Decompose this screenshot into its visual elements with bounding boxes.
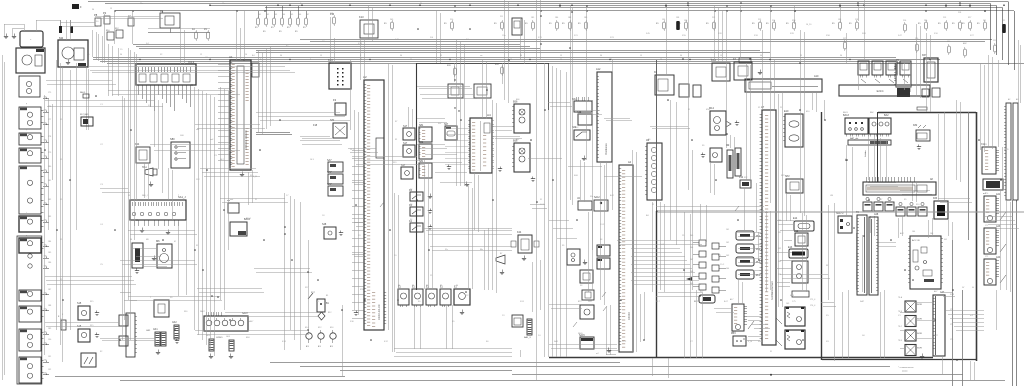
svg-text:149: 149	[786, 303, 789, 305]
svg-text:285: 285	[924, 20, 927, 22]
svg-text:209: 209	[390, 19, 393, 21]
svg-text:185: 185	[531, 17, 534, 19]
svg-text:M14: M14	[706, 109, 710, 111]
svg-text:ABC: ABC	[963, 42, 968, 45]
svg-text:180: 180	[48, 166, 51, 168]
svg-text:E10: E10	[784, 110, 789, 113]
svg-text:31b: 31b	[44, 123, 47, 125]
svg-text:A32: A32	[577, 111, 582, 114]
svg-text:31b: 31b	[44, 97, 47, 99]
svg-text:S15: S15	[77, 302, 82, 305]
svg-text:A12: A12	[596, 68, 601, 71]
svg-text:S07: S07	[444, 123, 449, 126]
svg-text:13: 13	[510, 59, 512, 61]
svg-text:A23: A23	[996, 225, 1001, 228]
svg-text:182: 182	[48, 199, 51, 201]
svg-text:T6: T6	[862, 211, 864, 213]
svg-text:31b: 31b	[44, 220, 47, 222]
svg-text:F12: F12	[744, 177, 747, 179]
svg-text:7: 7	[178, 195, 179, 197]
svg-text:M6: M6	[156, 239, 160, 243]
svg-text:207: 207	[690, 259, 693, 261]
svg-text:R12: R12	[726, 145, 729, 147]
svg-text:SA1_J: SA1_J	[178, 195, 186, 199]
svg-text:sw1: sw1	[196, 129, 199, 131]
svg-text:14_20: 14_20	[806, 24, 811, 26]
svg-text:A17: A17	[730, 298, 733, 301]
svg-text:A21: A21	[996, 193, 1001, 196]
svg-text:30: 30	[92, 9, 94, 11]
svg-text:X2: X2	[160, 54, 162, 56]
svg-text:89: 89	[412, 285, 414, 287]
svg-text:GYRO: GYRO	[216, 337, 223, 339]
svg-text:BA1_3: BA1_3	[524, 336, 531, 339]
svg-text:221: 221	[993, 40, 996, 42]
svg-text:K82: K82	[913, 124, 918, 127]
svg-text:30: 30	[600, 55, 602, 57]
svg-text:30: 30	[400, 55, 402, 57]
svg-text:8: 8	[260, 59, 261, 61]
svg-text:206: 206	[690, 247, 693, 249]
svg-text:E21/4: E21/4	[877, 89, 884, 93]
svg-text:104: 104	[726, 268, 729, 270]
svg-text:101: 101	[726, 229, 729, 231]
svg-text:SA15: SA15	[578, 332, 583, 335]
svg-text:Positionsw: Positionsw	[605, 143, 608, 155]
svg-text:s: s	[26, 162, 27, 164]
svg-text:80: 80	[398, 285, 400, 287]
svg-text:A3: A3	[1016, 98, 1018, 101]
svg-text:E13: E13	[788, 246, 793, 249]
svg-text:16: 16	[660, 59, 662, 61]
svg-text:30: 30	[120, 54, 122, 56]
svg-text:179: 179	[48, 152, 51, 154]
svg-text:S19: S19	[393, 162, 396, 164]
svg-text:31b: 31b	[44, 332, 47, 334]
svg-text:S17: S17	[403, 125, 408, 128]
svg-text:SA07: SA07	[248, 320, 254, 323]
svg-text:31b: 31b	[44, 245, 47, 247]
svg-text:DA11: DA11	[1004, 148, 1009, 151]
svg-text:B7: B7	[500, 253, 502, 255]
svg-text:30: 30	[456, 285, 458, 287]
svg-text:SA1.9: SA1.9	[80, 91, 85, 94]
svg-text:SP2: SP2	[785, 175, 790, 178]
svg-text:F2: F2	[395, 139, 397, 141]
svg-text:SOR: SOR	[917, 333, 922, 335]
svg-text:E10: E10	[806, 111, 809, 113]
svg-text:S15: S15	[90, 301, 93, 303]
svg-text:175: 175	[950, 339, 953, 341]
svg-text:175: 175	[48, 92, 51, 94]
svg-text:31: 31	[196, 245, 198, 247]
svg-text:Lichtin: Lichtin	[864, 150, 867, 157]
svg-text:213: 213	[758, 19, 761, 21]
svg-text:30: 30	[280, 55, 282, 57]
svg-text:183: 183	[48, 216, 51, 218]
svg-text:202: 202	[266, 14, 269, 16]
svg-text:31b: 31b	[44, 266, 47, 268]
svg-text:S81: S81	[419, 124, 424, 127]
svg-text:18: 18	[760, 59, 762, 61]
svg-text:SOR: SOR	[917, 319, 922, 321]
svg-text:K24: K24	[135, 143, 140, 146]
svg-text:10.2: 10.2	[220, 159, 224, 161]
svg-text:S3: S3	[580, 285, 582, 287]
svg-text:A1: A1	[229, 55, 233, 59]
svg-text:400: 400	[947, 41, 950, 43]
svg-text:30f: 30f	[430, 37, 433, 39]
svg-text:188: 188	[568, 17, 571, 19]
svg-text:S15: S15	[90, 325, 93, 327]
svg-text:31b: 31b	[44, 256, 47, 258]
svg-text:36: 36	[130, 239, 132, 241]
svg-text:XXXXXX XXXXX: XXXXXX XXXXX	[244, 130, 248, 150]
svg-text:31c: 31c	[445, 249, 448, 251]
svg-text:152: 152	[778, 248, 781, 250]
svg-text:FL7: FL7	[700, 291, 703, 293]
svg-text:SA1_J: SA1_J	[142, 194, 148, 197]
svg-text:X4.1: X4.1	[188, 60, 195, 64]
svg-text:206: 206	[298, 14, 301, 16]
svg-text:SOR: SOR	[917, 304, 922, 306]
svg-text:K10: K10	[916, 204, 919, 206]
svg-text:31: 31	[845, 159, 847, 161]
svg-text:GK1: GK1	[146, 330, 151, 332]
svg-text:87: 87	[440, 285, 442, 287]
svg-text:205: 205	[290, 14, 293, 16]
svg-text:S07: S07	[438, 123, 441, 125]
svg-text:F27: F27	[968, 17, 971, 19]
svg-text:K3: K3	[410, 204, 412, 206]
svg-text:A7: A7	[761, 105, 765, 109]
svg-text:11: 11	[410, 59, 412, 61]
svg-text:151: 151	[778, 232, 781, 234]
svg-text:10: 10	[360, 59, 362, 61]
svg-text:S17_B09: S17_B09	[80, 114, 89, 116]
svg-text:E16: E16	[330, 327, 333, 329]
svg-text:K7: K7	[880, 199, 882, 201]
svg-text:15: 15	[800, 55, 802, 57]
svg-text:186: 186	[48, 262, 51, 264]
svg-text:190: 190	[48, 339, 51, 341]
svg-text:X_M: X_M	[748, 341, 752, 343]
svg-text:184: 184	[48, 241, 51, 243]
svg-text:SA07: SA07	[200, 310, 205, 313]
svg-text:E84: E84	[246, 337, 249, 339]
svg-text:31: 31	[688, 109, 690, 111]
svg-text:BA2: BA2	[884, 114, 889, 117]
svg-text:221: 221	[983, 20, 986, 22]
svg-text:A4: A4	[487, 113, 491, 117]
svg-text:X1: X1	[758, 107, 760, 109]
svg-text:S62: S62	[575, 127, 578, 129]
svg-text:15: 15	[440, 55, 442, 57]
svg-text:30: 30	[840, 55, 842, 57]
svg-text:172: 172	[985, 256, 988, 258]
svg-text:A9: A9	[648, 138, 650, 141]
svg-text:E66: E66	[516, 99, 519, 101]
svg-text:212: 212	[712, 17, 715, 19]
svg-text:9: 9	[310, 59, 311, 61]
svg-text:31: 31	[540, 199, 542, 201]
svg-text:A24: A24	[996, 256, 1001, 259]
svg-text:SA7: SA7	[327, 183, 332, 186]
svg-text:GK2: GK2	[172, 322, 177, 324]
svg-text:12: 12	[652, 204, 654, 206]
svg-text:171: 171	[985, 225, 988, 227]
svg-text:30: 30	[520, 55, 522, 57]
svg-text:31: 31	[770, 351, 772, 353]
svg-text:189: 189	[584, 17, 587, 19]
svg-text:M14: M14	[709, 107, 714, 110]
svg-text:31b: 31b	[44, 293, 47, 295]
svg-text:31: 31	[255, 199, 257, 201]
svg-text:166: 166	[930, 233, 933, 235]
svg-text:191: 191	[48, 356, 51, 358]
svg-text:15: 15	[110, 8, 112, 10]
svg-text:GK1: GK1	[153, 329, 158, 331]
svg-text:BA13: BA13	[843, 111, 848, 114]
svg-text:K2: K2	[100, 351, 102, 353]
svg-text:K24: K24	[517, 231, 522, 234]
svg-text:SOR: SOR	[917, 348, 922, 350]
svg-text:xxxxx: xxxxx	[902, 371, 908, 373]
svg-text:S5: S5	[562, 245, 564, 247]
svg-text:C5: C5	[87, 54, 89, 56]
svg-text:X11: X11	[984, 144, 987, 146]
svg-text:31b: 31b	[44, 140, 47, 142]
svg-text:B12: B12	[328, 312, 331, 314]
svg-text:15: 15	[640, 55, 642, 57]
svg-text:BA2: BA2	[870, 111, 874, 114]
svg-text:102: 102	[726, 242, 729, 244]
svg-text:31b: 31b	[44, 156, 47, 158]
svg-text:q: q	[26, 129, 27, 131]
svg-text:218: 218	[855, 19, 858, 21]
svg-text:p: p	[26, 103, 27, 105]
svg-text:SA12: SA12	[594, 196, 600, 199]
svg-text:154: 154	[778, 274, 781, 276]
svg-text:15: 15	[720, 55, 722, 57]
svg-text:B3: B3	[575, 99, 577, 101]
svg-text:F28: F28	[792, 20, 795, 22]
svg-text:M2: M2	[59, 36, 63, 40]
svg-text:K7: K7	[395, 121, 397, 123]
svg-text:XXXXX: XXXXX	[628, 312, 631, 320]
svg-text:31b: 31b	[44, 309, 47, 311]
svg-text:181: 181	[48, 180, 51, 182]
svg-text:205: 205	[690, 235, 693, 237]
svg-text:14: 14	[560, 59, 562, 61]
svg-text:P2: P2	[103, 11, 107, 15]
svg-text:14.3: 14.3	[310, 159, 314, 161]
svg-text:T8.C: T8.C	[898, 326, 903, 328]
svg-text:BA13: BA13	[843, 114, 850, 117]
svg-text:13: 13	[128, 195, 130, 197]
svg-text:175_4: 175_4	[810, 299, 815, 301]
svg-text:E12: E12	[318, 327, 321, 329]
svg-text:186: 186	[555, 17, 558, 19]
svg-text:S48: S48	[322, 223, 327, 226]
svg-text:210: 210	[450, 19, 453, 21]
svg-text:A10: A10	[814, 75, 819, 78]
svg-text:85: 85	[426, 285, 428, 287]
svg-text:S17: S17	[403, 142, 408, 145]
svg-text:Kombiinstrument: Kombiinstrument	[771, 281, 774, 300]
svg-text:201: 201	[258, 14, 261, 16]
svg-text:K63: K63	[933, 197, 938, 200]
svg-text:176_4: 176_4	[810, 305, 815, 307]
svg-text:30: 30	[680, 55, 682, 57]
svg-text:12: 12	[460, 59, 462, 61]
svg-text:196: 196	[662, 19, 665, 21]
svg-text:31b: 31b	[44, 343, 47, 345]
svg-text:208: 208	[330, 13, 333, 15]
svg-text:7: 7	[150, 297, 151, 299]
svg-text:15.1: 15.1	[350, 149, 354, 151]
svg-text:31b: 31b	[44, 110, 47, 112]
svg-text:153: 153	[778, 261, 781, 263]
svg-text:203: 203	[274, 14, 277, 16]
svg-text:ACC: ACC	[900, 232, 905, 235]
svg-text:12: 12	[200, 54, 202, 56]
svg-text:SP2: SP2	[781, 175, 785, 177]
svg-text:K8: K8	[892, 204, 894, 206]
svg-text:F30: F30	[184, 311, 187, 313]
svg-text:31b: 31b	[44, 184, 47, 186]
svg-text:17: 17	[710, 59, 712, 61]
svg-text:XXXX-XX-XX: XXXX-XX-XX	[377, 304, 381, 320]
svg-text:31b: 31b	[44, 170, 47, 172]
svg-text:A28: A28	[874, 213, 879, 216]
svg-text:178: 178	[48, 136, 51, 138]
svg-text:SA7: SA7	[327, 159, 332, 162]
svg-text:216: 216	[903, 20, 906, 22]
svg-text:S81: S81	[419, 141, 424, 144]
svg-text:207: 207	[306, 14, 309, 16]
svg-text:21: 21	[780, 107, 782, 109]
svg-text:213: 213	[943, 17, 946, 19]
svg-text:31b: 31b	[44, 360, 47, 362]
svg-text:211: 211	[500, 16, 503, 18]
svg-text:150: 150	[778, 220, 781, 222]
svg-text:K9: K9	[904, 199, 906, 201]
svg-text:X0: X0	[170, 297, 172, 299]
svg-text:S9: S9	[702, 145, 704, 147]
svg-text:BT2: BT2	[578, 301, 581, 303]
svg-text:30: 30	[760, 55, 762, 57]
svg-text:164: 164	[912, 231, 915, 233]
svg-text:214: 214	[772, 20, 775, 22]
svg-text:208: 208	[690, 271, 693, 273]
svg-text:E14: E14	[793, 217, 798, 220]
svg-text:T8.D: T8.D	[898, 340, 903, 342]
svg-text:187: 187	[48, 289, 51, 291]
svg-text:174: 174	[950, 324, 953, 326]
svg-text:177: 177	[48, 119, 51, 121]
svg-text:189: 189	[48, 328, 51, 330]
svg-text:E67: E67	[516, 139, 519, 141]
svg-text:209: 209	[690, 283, 693, 285]
svg-text:GK4: GK4	[226, 336, 230, 338]
svg-text:MF1: MF1	[732, 332, 736, 334]
svg-text:199: 199	[684, 20, 687, 22]
svg-text:BA14: BA14	[246, 217, 251, 220]
svg-text:* = xxxxx xxx xx: * = xxxxx xxx xx	[898, 367, 914, 369]
svg-text:BA7_akt: BA7_akt	[850, 137, 859, 140]
svg-text:11.2: 11.2	[196, 179, 200, 181]
svg-text:15: 15	[320, 55, 322, 57]
svg-text:204: 204	[282, 14, 285, 16]
svg-text:F3: F3	[826, 265, 828, 267]
svg-text:B1: B1	[326, 295, 328, 297]
svg-text:SA7: SA7	[327, 171, 332, 174]
svg-text:198: 198	[838, 19, 841, 21]
svg-text:X4: X4	[600, 239, 602, 241]
svg-text:K4: K4	[160, 9, 164, 13]
svg-text:A28: A28	[872, 210, 875, 213]
svg-text:198: 198	[676, 17, 679, 19]
svg-text:SOR: SOR	[950, 294, 955, 296]
svg-text:F18: F18	[313, 124, 318, 127]
svg-text:148: 148	[786, 326, 789, 328]
svg-text:86s: 86s	[480, 249, 483, 251]
svg-text:185: 185	[48, 252, 51, 254]
svg-text:192: 192	[48, 369, 51, 371]
svg-text:F17: F17	[305, 287, 308, 289]
svg-text:K2: K2	[410, 189, 412, 191]
svg-text:A2: A2	[363, 75, 367, 79]
svg-text:ACC IN: ACC IN	[912, 239, 920, 242]
svg-text:103: 103	[726, 255, 729, 257]
svg-text:sw2: sw2	[210, 139, 213, 141]
svg-text:170: 170	[985, 193, 988, 195]
svg-text:217: 217	[843, 38, 846, 40]
svg-text:31b: 31b	[44, 203, 47, 205]
svg-text:M6: M6	[146, 239, 149, 241]
svg-text:15: 15	[560, 55, 562, 57]
svg-text:antr: antr	[230, 198, 234, 201]
svg-text:A2: A2	[1008, 98, 1010, 101]
svg-text:176: 176	[48, 106, 51, 108]
svg-text:A47: A47	[934, 290, 937, 293]
svg-text:170: 170	[915, 38, 918, 40]
svg-text:188: 188	[48, 305, 51, 307]
svg-text:E14: E14	[305, 327, 308, 329]
svg-text:IG1: IG1	[944, 239, 947, 241]
svg-text:K4: K4	[410, 219, 412, 221]
svg-text:GK3: GK3	[206, 335, 210, 337]
svg-text:173: 173	[950, 309, 953, 311]
svg-text:218: 218	[958, 12, 961, 14]
svg-text:10: 10	[245, 54, 247, 56]
svg-text:31b: 31b	[44, 373, 47, 375]
svg-text:S80: S80	[170, 137, 175, 141]
svg-text:30: 30	[420, 3, 422, 5]
svg-text:K13: K13	[359, 15, 364, 19]
svg-text:m2: m2	[596, 353, 599, 355]
svg-text:222: 222	[1002, 20, 1005, 22]
